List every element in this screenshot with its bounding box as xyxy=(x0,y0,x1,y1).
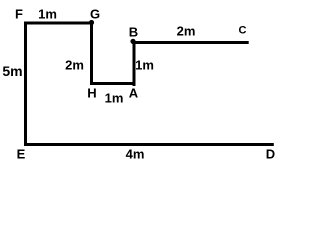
node label E xyxy=(17,148,26,161)
wire ED (bottom horizontal 4m side) xyxy=(24,143,274,146)
value label 1m (AB) xyxy=(135,58,154,71)
node label A xyxy=(129,86,138,99)
wire FE (left vertical 5m side) xyxy=(24,22,27,147)
node label B xyxy=(129,25,138,38)
value label 1m (FG) xyxy=(38,8,57,21)
node label H xyxy=(87,87,96,100)
wire HA (notch bottom horizontal 1m side) xyxy=(90,82,136,85)
wire FG (top horizontal 1m side) xyxy=(24,22,93,25)
value label 2m (BC) xyxy=(177,25,196,38)
wire GH (middle vertical 2m side) xyxy=(90,22,93,86)
value label 5m (FE) xyxy=(2,64,22,78)
node G (junction dot) xyxy=(89,20,94,25)
wire AB (vertical 1m side) xyxy=(133,41,136,86)
value label 2m (GH) xyxy=(65,58,84,71)
node B (junction dot) xyxy=(130,39,135,44)
node label F xyxy=(15,8,23,21)
node label D xyxy=(266,148,275,161)
value label 1m (HA) xyxy=(105,91,124,104)
value label 4m (ED) xyxy=(126,148,145,161)
wire BC (top right horizontal 2m side) xyxy=(132,41,249,44)
node label C xyxy=(239,26,247,37)
node label G xyxy=(90,7,100,20)
